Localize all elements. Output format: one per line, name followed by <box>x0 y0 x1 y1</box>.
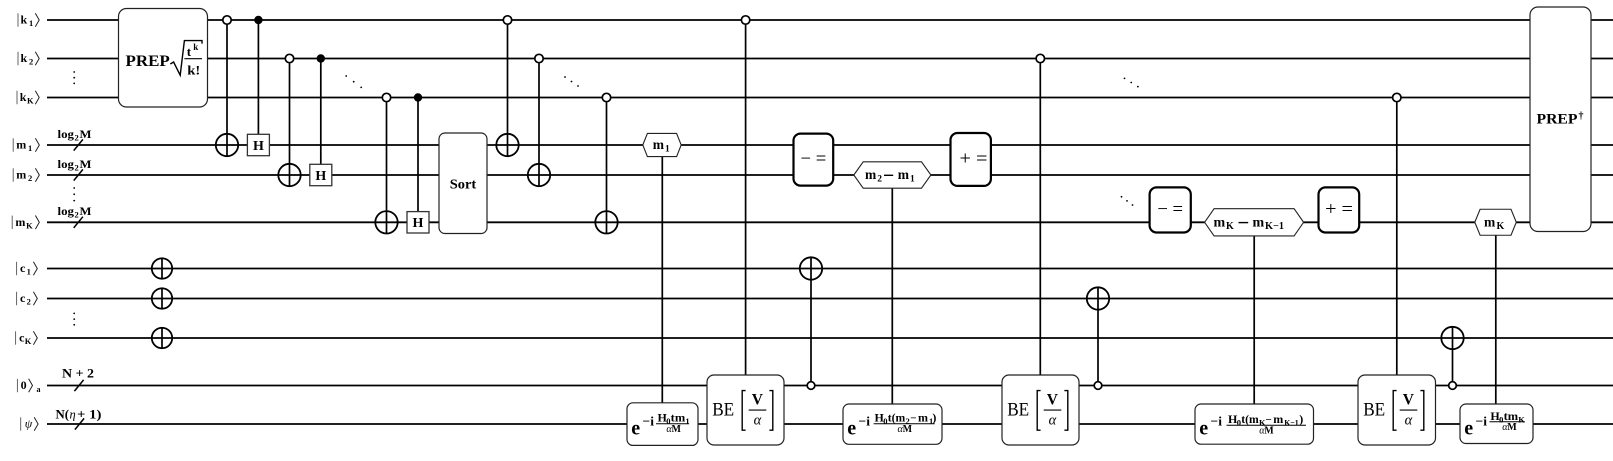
svg-text:1: 1 <box>685 416 689 426</box>
svg-text:M: M <box>1264 426 1274 437</box>
gate H on mK <box>407 212 429 233</box>
control open k2 (post-sort CNOT m2) <box>535 54 543 62</box>
wire vertical ctrl a->c2 CNOT <box>1097 287 1099 385</box>
svg-text:e: e <box>1464 418 1473 440</box>
cnot target on c1 (x=811) <box>800 257 822 279</box>
node label |psi> <box>21 417 38 431</box>
control open k2 (BE2) <box>1036 54 1044 62</box>
wire vertical ctrl kK->BE3 <box>1396 98 1398 376</box>
svg-text:α: α <box>1049 413 1057 429</box>
svg-text:V: V <box>752 391 764 408</box>
svg-text:ψ: ψ <box>25 417 33 431</box>
svg-text:+ 1): + 1) <box>77 408 102 422</box>
svg-text:m: m <box>1214 216 1226 231</box>
svg-text:K: K <box>1226 221 1234 232</box>
svg-text:N(: N( <box>56 408 70 422</box>
wire vertical ctrl k1->BE1 <box>745 20 747 375</box>
hexagon tag m2-m1 <box>854 162 931 188</box>
svg-text:V: V <box>1403 391 1415 408</box>
svg-text:t: t <box>187 44 192 59</box>
svg-text:K: K <box>1497 221 1505 232</box>
gate exp(-i H0 t (mK-mK-1) / aM) on psi <box>1195 404 1314 444</box>
svg-text:1: 1 <box>910 175 915 185</box>
ellipsis between m2 and mK <box>73 187 75 201</box>
svg-text:1: 1 <box>665 145 670 155</box>
node label |c1> <box>17 261 38 277</box>
gate BE[V/alpha] #1 (wires a,psi) <box>707 375 784 445</box>
hexagon tag mK <box>1475 209 1517 235</box>
svg-text:M: M <box>80 204 92 218</box>
gate H on m1 <box>247 134 269 155</box>
svg-text:log: log <box>58 157 75 171</box>
node label |mK> <box>12 215 39 231</box>
gate BE[V/alpha] #2 (wires a,psi) <box>1002 375 1079 445</box>
x-gate target on c2 (x=162) <box>152 288 172 309</box>
node label |c2> <box>17 291 38 307</box>
wire k2 <box>47 58 1613 60</box>
control open a (CNOT cK) <box>1449 382 1457 390</box>
svg-text:α: α <box>754 413 762 429</box>
wire c1 <box>47 268 1613 270</box>
svg-text:H: H <box>413 216 424 231</box>
gate += #2 (wire mK) <box>1319 187 1360 232</box>
svg-text:c: c <box>20 291 26 305</box>
svg-text:2: 2 <box>75 132 79 142</box>
wire k1 <box>47 19 1613 21</box>
wire m1 <box>47 144 1613 146</box>
node label |kK> <box>17 90 39 106</box>
control dot k1 (ctrl-H m1) <box>254 16 262 24</box>
ellipsis between k2 and kK <box>73 71 75 84</box>
wire cK <box>47 337 1613 339</box>
wire psi <box>47 423 1613 425</box>
wire vertical ctrl kK->mK CNOT (post-sort) <box>606 98 608 234</box>
svg-text:BE: BE <box>712 401 734 421</box>
svg-text:PREP: PREP <box>126 53 171 70</box>
svg-text:c: c <box>20 261 26 275</box>
svg-text:m: m <box>918 411 928 425</box>
wire vertical ctrl k2->m2 CNOT (post-sort) <box>538 59 540 187</box>
wire vertical ctrl kK->H(mK) <box>417 98 419 212</box>
wire vertical m1-hexagon to exp-box 1 <box>661 157 663 404</box>
control open kK (post-sort CNOT mK) <box>602 93 610 101</box>
wire vertical ctrl kK->mK CNOT <box>386 98 388 234</box>
node label |cK> <box>16 331 38 347</box>
svg-text:2: 2 <box>877 175 882 185</box>
svg-text:H: H <box>315 169 326 184</box>
gate -= #1 (wires m1,m2) <box>794 134 834 186</box>
wire vertical ctrl k1->m1 CNOT (post-sort) <box>507 20 509 156</box>
svg-text:log: log <box>58 127 75 141</box>
bus slash mK <box>74 217 83 228</box>
bus width label log2M (m1) <box>58 127 92 143</box>
svg-text:−i: −i <box>1211 414 1223 429</box>
ellipsis between c2 and cK <box>73 313 75 326</box>
wire vertical ctrl a->cK CNOT <box>1452 327 1454 386</box>
svg-text:K: K <box>25 336 32 346</box>
svg-text:a: a <box>37 385 41 394</box>
svg-text:1: 1 <box>29 18 33 28</box>
cnot target on m1 (x=507.5) <box>496 134 518 156</box>
svg-text:−i: −i <box>1476 414 1488 429</box>
wire kK <box>47 97 1613 99</box>
svg-text:α: α <box>1405 413 1413 429</box>
x-gate target on c1 (x=162) <box>152 258 172 279</box>
svg-text:tm: tm <box>1504 409 1519 423</box>
svg-text:K: K <box>26 221 33 231</box>
control dot k2 (ctrl-H m2) <box>317 54 325 62</box>
svg-text:k: k <box>20 90 27 104</box>
svg-text:+ =: + = <box>1325 199 1353 220</box>
control dot kK (ctrl-H mK) <box>414 93 422 101</box>
svg-text:− =: − = <box>1157 199 1183 220</box>
svg-text:m: m <box>16 138 26 152</box>
svg-text:−: − <box>910 413 916 425</box>
svg-text:e: e <box>1199 418 1208 440</box>
svg-text:M: M <box>1507 422 1517 433</box>
gate PREP sqrt(t^k/k!) U1 (wires k1-kK) <box>119 9 208 108</box>
cnot target on m2 (x=539) <box>528 164 550 186</box>
wire mK <box>47 221 1613 223</box>
gate exp(-i H0 t (m2-m1) / aM) on psi <box>843 404 942 444</box>
diagonal ellipsis k-group 2 <box>564 76 579 87</box>
control open a (CNOT c2) <box>1094 382 1102 390</box>
svg-text:Sort: Sort <box>450 177 477 192</box>
gate BE[V/alpha] #3 (wires a,psi) <box>1358 375 1436 445</box>
svg-text:K: K <box>1518 415 1525 425</box>
wire m2 <box>47 174 1613 176</box>
svg-text:2: 2 <box>29 57 33 67</box>
cnot target on mK (x=606.5) <box>595 211 617 233</box>
wire vertical ctrl a->c1 CNOT <box>810 257 812 385</box>
wire vertical ctrl k2->H(m2) <box>320 59 322 165</box>
gate Sort (wires m1-mK) <box>439 133 487 234</box>
bus slash psi <box>75 418 84 429</box>
svg-text:m: m <box>865 167 877 182</box>
node label |m1> <box>13 138 39 154</box>
svg-text:K−1: K−1 <box>1265 221 1284 232</box>
svg-text:M: M <box>80 127 92 141</box>
svg-text:M: M <box>672 424 682 435</box>
svg-text:m: m <box>16 168 26 182</box>
diagonal ellipsis k-group 1 <box>345 75 362 88</box>
gate -= #2 (wire mK) <box>1150 187 1191 232</box>
x-gate target on cK (x=162) <box>152 328 172 349</box>
svg-text:2: 2 <box>28 173 32 183</box>
svg-text:m: m <box>1484 214 1496 229</box>
svg-text:M: M <box>80 157 92 171</box>
control open a (CNOT c1) <box>807 382 815 390</box>
wire a <box>47 385 1613 387</box>
cnot target on m2 (x=289.5) <box>278 164 300 186</box>
svg-text:m: m <box>1253 216 1265 231</box>
svg-text:tm: tm <box>671 411 686 425</box>
svg-text:k: k <box>21 51 28 65</box>
diagonal ellipsis k-group 3 <box>1124 78 1139 88</box>
bus width label N(eta+1) (psi) <box>56 408 102 422</box>
svg-text:log: log <box>58 204 75 218</box>
control open k1 (post-sort CNOT m1) <box>503 16 511 24</box>
wire vertical mK-hexagon to exp-box 4 <box>1495 235 1497 404</box>
svg-text:†: † <box>1579 111 1584 122</box>
control open k1 (BE1) <box>741 16 749 24</box>
svg-text:m: m <box>15 215 25 229</box>
cnot target on mK (x=386.5) <box>375 211 397 233</box>
svg-text:1: 1 <box>28 143 32 153</box>
svg-text:2: 2 <box>75 162 79 172</box>
svg-text:H: H <box>253 139 264 154</box>
svg-text:−i: −i <box>643 414 655 429</box>
svg-text:−: − <box>1266 414 1272 426</box>
gate exp(-i H0 t m1 / aM) on psi <box>627 403 698 446</box>
svg-text:+ =: + = <box>960 149 988 170</box>
cnot target on c2 (x=1098) <box>1087 287 1109 309</box>
node label |0>_a <box>17 378 40 394</box>
gate PREP-dagger (wires k1-mK) <box>1530 7 1591 232</box>
gate += #1 (wires m1,m2) <box>951 133 991 186</box>
wire vertical mK-hexagon to exp-box 3 <box>1253 236 1255 404</box>
svg-text:0: 0 <box>21 378 27 392</box>
gate exp(-i H0 t mK / aM) on psi <box>1460 404 1533 444</box>
svg-text:m: m <box>898 167 910 182</box>
control open kK (CNOT to mK) <box>382 93 390 101</box>
svg-text:): ) <box>932 411 936 425</box>
node label |k1> <box>18 13 39 29</box>
svg-text:t(m: t(m <box>1241 412 1259 426</box>
svg-text:−i: −i <box>859 414 871 429</box>
svg-text:BE: BE <box>1363 401 1385 421</box>
svg-text:2: 2 <box>27 297 31 307</box>
bus slash a <box>74 380 83 391</box>
svg-text:V: V <box>1047 391 1059 408</box>
gate H on m2 <box>310 164 332 185</box>
node label |m2> <box>13 168 39 184</box>
bus slash m2 <box>74 169 83 180</box>
diagonal ellipsis m-group <box>1121 196 1134 206</box>
hexagon tag m1 <box>643 133 681 156</box>
svg-text:e: e <box>847 418 856 440</box>
svg-text:m: m <box>1273 412 1283 426</box>
wire vertical ctrl k2->m2 CNOT <box>289 59 291 187</box>
svg-text:m: m <box>653 137 665 152</box>
bus slash m1 <box>74 139 83 150</box>
bus width label log2M (mK) <box>58 204 92 220</box>
hexagon tag mK-mK-1 <box>1205 209 1304 236</box>
svg-text:BE: BE <box>1007 401 1029 421</box>
svg-text:k: k <box>193 42 198 52</box>
svg-text:t(m: t(m <box>888 411 906 425</box>
svg-text:M: M <box>903 424 913 435</box>
svg-text:1: 1 <box>27 267 31 277</box>
bus width label log2M (m2) <box>58 157 92 173</box>
cnot target on cK (x=1452.5) <box>1441 327 1463 349</box>
svg-text:η: η <box>70 408 76 422</box>
svg-text:e: e <box>631 418 640 440</box>
wire c2 <box>47 298 1613 300</box>
svg-text:PREP: PREP <box>1537 111 1578 127</box>
svg-text:N + 2: N + 2 <box>62 367 94 381</box>
control open k2 (CNOT to m2) <box>285 54 293 62</box>
wire vertical ctrl k1->H(m1) <box>257 20 259 134</box>
svg-text:− =: − = <box>801 149 827 170</box>
wire vertical ctrl k1->m1 CNOT <box>226 20 228 156</box>
svg-text:K: K <box>27 96 34 106</box>
svg-text:2: 2 <box>75 210 79 220</box>
svg-text:k: k <box>21 13 28 27</box>
cnot target on m1 (x=227) <box>216 134 238 156</box>
control open kK (BE3) <box>1393 93 1401 101</box>
control open k1 (CNOT to m1) <box>223 16 231 24</box>
wire vertical m2-hexagon to exp-box 2 <box>891 188 893 404</box>
wire vertical ctrl k2->BE2 <box>1039 59 1041 376</box>
node label |k2> <box>18 51 39 66</box>
svg-text:K−1: K−1 <box>1284 417 1299 427</box>
svg-text:): ) <box>1299 412 1303 426</box>
svg-text:k!: k! <box>187 64 200 78</box>
